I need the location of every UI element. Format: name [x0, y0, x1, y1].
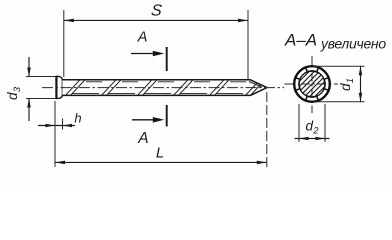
section vertical centerline — [311, 56, 313, 113]
svg-text:увеличено: увеличено — [320, 36, 386, 52]
dimension d2 extension left — [298, 104, 300, 142]
nail head — [56, 76, 62, 98]
dimension S extension right — [247, 10, 249, 80]
dimension S line — [64, 19, 248, 21]
centerline main view — [42, 87, 284, 89]
dimension L extension left — [54, 101, 56, 167]
dimension S arrow left — [64, 19, 74, 23]
svg-text:h: h — [74, 111, 81, 126]
svg-text:1: 1 — [345, 78, 356, 83]
svg-text:d: d — [338, 83, 353, 91]
label d1 — [338, 78, 356, 91]
section core circle — [299, 71, 325, 97]
svg-text:A: A — [137, 30, 148, 46]
dimension S extension left — [63, 10, 65, 77]
dimension d2 line + arrows — [295, 138, 330, 140]
svg-text:2: 2 — [312, 126, 319, 137]
section hatch core — [293, 65, 330, 102]
dimension d3 extension top — [26, 76, 56, 78]
dimension d3 line + arrows — [28, 57, 30, 77]
dimension d3 extension bottom — [26, 98, 56, 100]
svg-text:3: 3 — [12, 86, 23, 92]
svg-text:A: A — [137, 130, 148, 147]
dimension h line — [38, 125, 75, 127]
dimension L extension right (dashed, from tip) — [266, 92, 268, 170]
svg-text:d: d — [5, 92, 20, 100]
section outer circle d1 — [294, 66, 330, 102]
dimension d2 extension right — [324, 104, 326, 142]
section rib W — [294, 78, 300, 91]
dimension d1 extension bottom — [314, 101, 365, 103]
helical rib lines — [66, 80, 265, 95]
section rib S — [306, 96, 319, 102]
dimension h extension right — [62, 119, 64, 130]
svg-text:S: S — [150, 2, 163, 20]
section rib E — [324, 78, 330, 91]
svg-text:d: d — [306, 119, 314, 134]
dimension L line — [55, 161, 267, 163]
section rib N — [306, 66, 319, 72]
section arrow A bottom — [132, 119, 158, 121]
section horizontal centerline — [285, 83, 339, 85]
section arrow A top — [131, 53, 157, 55]
svg-text:L: L — [156, 145, 164, 162]
dimension d1 extension top — [314, 65, 365, 67]
svg-text:A–A: A–A — [284, 31, 317, 50]
label d3 — [5, 86, 23, 100]
shank outline with tip — [62, 80, 267, 96]
dimension S arrow right — [238, 19, 248, 23]
dimension d1 line — [360, 66, 362, 102]
label d2 — [306, 119, 320, 137]
nail head face line — [55, 76, 57, 99]
